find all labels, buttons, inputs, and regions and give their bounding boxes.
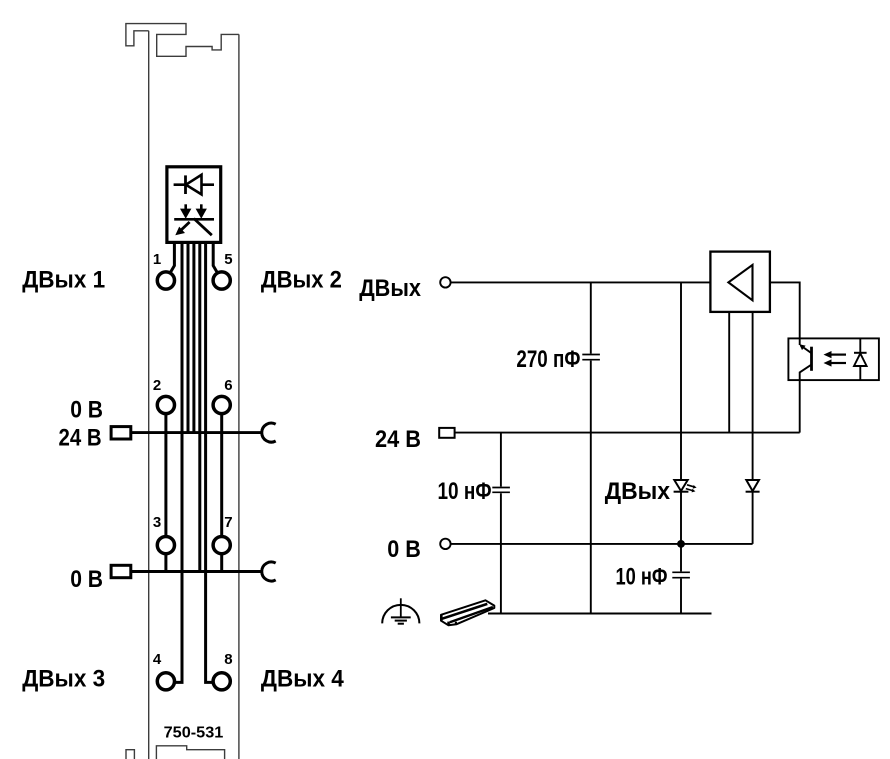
svg-text:1: 1 [153,251,161,268]
svg-text:270 пФ: 270 пФ [516,346,580,373]
svg-text:0 В: 0 В [70,396,103,423]
svg-text:4: 4 [153,651,162,668]
svg-text:10 нФ: 10 нФ [438,478,492,505]
svg-text:ДВых 3: ДВых 3 [22,666,105,693]
svg-text:ДВых 4: ДВых 4 [261,666,345,693]
svg-text:ДВых: ДВых [605,478,671,505]
svg-text:ДВых 1: ДВых 1 [22,267,105,294]
svg-text:ДВых: ДВых [359,275,421,302]
svg-text:5: 5 [224,251,232,268]
svg-text:8: 8 [224,651,232,668]
svg-text:10 нФ: 10 нФ [616,564,668,591]
svg-text:24 В: 24 В [59,424,102,451]
svg-text:ДВых 2: ДВых 2 [261,267,342,294]
svg-text:7: 7 [224,514,232,531]
svg-text:24 В: 24 В [375,426,421,453]
svg-text:2: 2 [153,377,161,394]
svg-text:6: 6 [224,377,232,394]
svg-text:3: 3 [153,514,161,531]
svg-text:0 В: 0 В [70,566,103,593]
svg-text:750-531: 750-531 [164,725,224,742]
svg-text:0 В: 0 В [387,536,421,563]
